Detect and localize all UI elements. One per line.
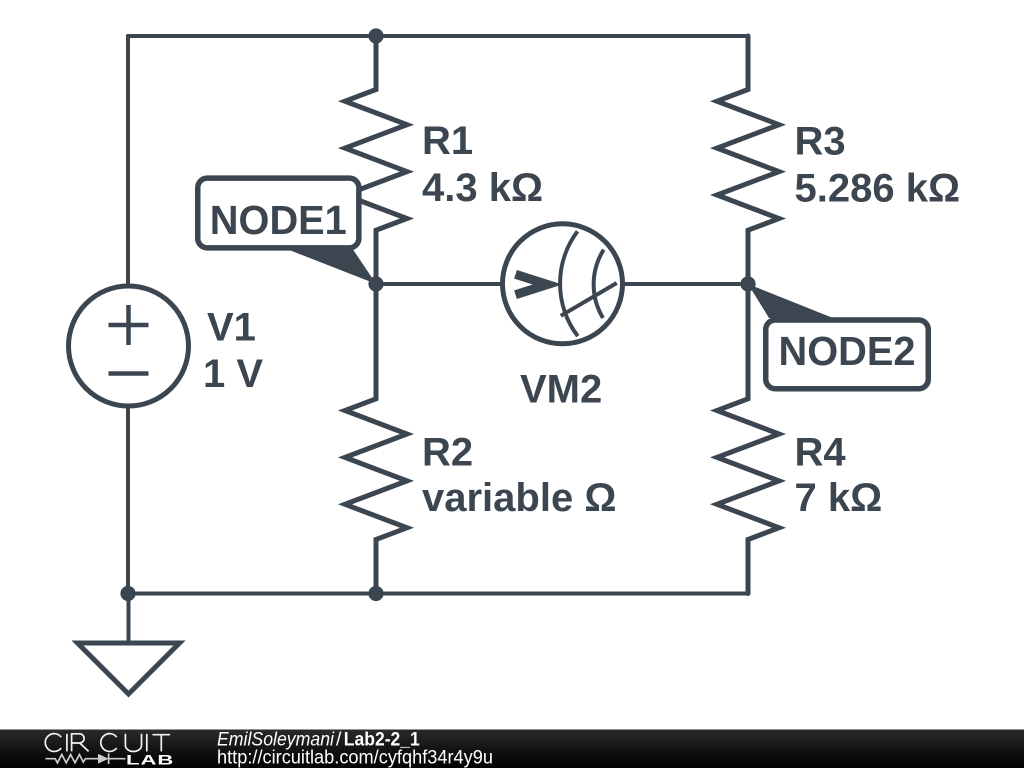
label R1 value xyxy=(422,119,543,210)
svg-text:V1: V1 xyxy=(207,305,256,349)
callout NODE2 xyxy=(748,284,928,389)
svg-text:7 kΩ: 7 kΩ xyxy=(795,476,883,520)
svg-text:variable Ω: variable Ω xyxy=(422,476,616,520)
node junction dot NODE1 xyxy=(368,276,383,291)
CircuitLab logo LAB xyxy=(126,752,174,768)
node junction dot ground xyxy=(120,586,135,601)
svg-text:4.3 kΩ: 4.3 kΩ xyxy=(422,166,543,210)
attribution line 2 xyxy=(217,747,493,768)
node junction dot R2 bottom xyxy=(368,586,383,601)
resistor R1 xyxy=(345,36,407,284)
wire NODE1 to VM2 xyxy=(376,282,500,286)
node junction dot top rail / R1 xyxy=(368,28,383,43)
footer bar xyxy=(0,730,1024,768)
svg-text:NODE1: NODE1 xyxy=(210,197,347,243)
CircuitLab logo CIRCUIT xyxy=(45,734,170,752)
svg-text:R4: R4 xyxy=(795,430,847,474)
resistor R4 xyxy=(717,284,779,594)
svg-text:1 V: 1 V xyxy=(203,352,263,396)
svg-text:R2: R2 xyxy=(422,430,473,474)
svg-text:http://circuitlab.com/cyfqhf34: http://circuitlab.com/cyfqhf34r4y9u xyxy=(217,747,493,768)
resistor R2 xyxy=(345,284,407,594)
label R3 value xyxy=(795,120,961,211)
label V1 value xyxy=(203,305,263,396)
svg-text:5.286 kΩ: 5.286 kΩ xyxy=(795,167,961,211)
wire bottom rail xyxy=(128,592,748,596)
CircuitLab logo resistor-diode graphic xyxy=(46,753,126,764)
attribution line 1 xyxy=(217,729,420,751)
svg-text:R1: R1 xyxy=(422,119,473,163)
wire VM2 to NODE2 xyxy=(625,282,748,286)
svg-text:R3: R3 xyxy=(795,120,846,164)
label R2 value xyxy=(422,430,616,520)
label VM2 xyxy=(520,368,602,412)
callout NODE1 xyxy=(198,178,376,284)
voltage source V1 xyxy=(69,286,189,406)
label R4 value xyxy=(795,430,883,520)
wire V1 bottom to bottom rail xyxy=(126,409,130,594)
svg-text:LAB: LAB xyxy=(126,752,174,768)
wire top rail xyxy=(128,34,748,38)
voltmeter VM2 xyxy=(503,224,623,344)
wire left vertical (top rail to V1) xyxy=(126,36,130,284)
svg-text:NODE2: NODE2 xyxy=(779,328,916,374)
ground xyxy=(78,594,180,695)
svg-text:VM2: VM2 xyxy=(520,368,602,412)
resistor R3 xyxy=(717,36,779,284)
node junction dot NODE2 xyxy=(740,276,755,291)
